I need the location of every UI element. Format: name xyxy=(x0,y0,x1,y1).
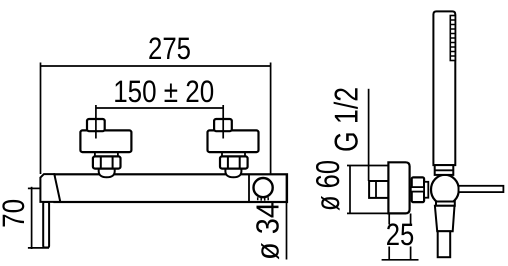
svg-text:150 ± 20: 150 ± 20 xyxy=(113,74,214,109)
svg-text:ø 34: ø 34 xyxy=(249,202,285,260)
svg-text:70: 70 xyxy=(0,199,31,228)
svg-text:25: 25 xyxy=(386,217,415,252)
svg-text:275: 275 xyxy=(148,31,191,66)
svg-text:G 1/2: G 1/2 xyxy=(328,87,365,152)
svg-text:ø 60: ø 60 xyxy=(309,160,346,211)
